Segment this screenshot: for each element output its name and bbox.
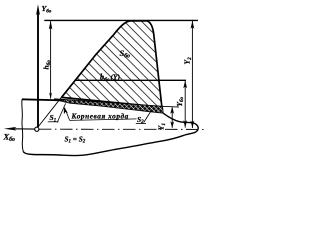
S2 underline [136,123,146,125]
Y axis (Y_bo) [37,13,39,127]
S1 leader line [57,103,65,122]
origin circle [35,127,39,131]
chord line b_bo(Y) [75,79,186,81]
S2 leader line [144,112,151,123]
X axis (X_bo) [12,128,35,130]
svg-text:S1 = S2: S1 = S2 [65,135,86,144]
fuselage aft upper contour, tail tip and lower contour [23,113,198,155]
h_bo dimension line [50,21,52,99]
S1 leading-edge extension line [38,97,62,127]
h_bo top arrow [49,21,53,30]
svg-text:bбо(Y): bбо(Y) [100,72,120,82]
Y axis arrowhead [36,4,40,15]
fin side area S_bo: hatched outline [62,21,162,107]
S1 underline [48,121,59,123]
root chord strip (cross-hatched wedge) [55,99,164,113]
fuselage top contour line [22,99,63,100]
fuselage forward break line (wavy) [22,99,23,151]
label underline [70,119,137,121]
X axis arrowhead [4,127,17,131]
Y1 dimension line with arrows [171,107,173,128]
root chord TE level line [163,105,179,108]
Y2 dimension line with arrows [191,21,193,128]
h_bo bottom arrow [49,93,52,99]
Y_bo dimension line with arrows [184,81,186,128]
leader with arrow to strip [65,109,70,121]
fuselage centre line (dash-dot) [39,128,205,130]
top horizontal reference line [44,19,198,21]
